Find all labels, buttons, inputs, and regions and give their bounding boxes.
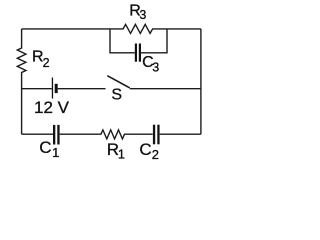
svg-text:C: C bbox=[39, 138, 51, 157]
svg-text:1: 1 bbox=[52, 145, 59, 160]
svg-text:S: S bbox=[111, 86, 122, 103]
svg-text:1: 1 bbox=[118, 147, 125, 162]
svg-text:C: C bbox=[139, 140, 151, 159]
svg-text:2: 2 bbox=[43, 56, 50, 70]
svg-text:2: 2 bbox=[152, 147, 159, 162]
svg-text:3: 3 bbox=[139, 8, 146, 22]
svg-text:3: 3 bbox=[152, 61, 159, 75]
svg-text:12 V: 12 V bbox=[34, 98, 70, 117]
